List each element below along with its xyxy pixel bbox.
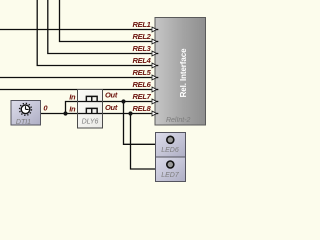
delay block DLY6	[78, 90, 103, 129]
svg-text:In: In	[69, 92, 76, 101]
svg-text:DLY6: DLY6	[82, 119, 99, 126]
pin REL4	[133, 56, 159, 68]
svg-text:REL4: REL4	[133, 56, 152, 65]
pin REL8	[133, 104, 159, 116]
node J3	[128, 111, 132, 115]
pin REL1	[133, 20, 159, 32]
wire REL5 net	[0, 77, 152, 79]
svg-text:REL1: REL1	[133, 20, 151, 29]
LED LED6	[156, 133, 186, 158]
svg-text:In: In	[69, 104, 76, 113]
pin REL5	[133, 68, 159, 80]
pin REL2	[133, 32, 159, 44]
wire REL3 net	[48, 0, 152, 54]
wire REL6 net	[0, 89, 152, 91]
LED LED7	[156, 157, 186, 182]
relay interface U-RelInt-2	[155, 18, 206, 126]
svg-text:LED7: LED7	[161, 172, 180, 179]
svg-text:Out: Out	[105, 103, 118, 112]
svg-text:RelInt-2: RelInt-2	[166, 117, 191, 124]
wire REL7 net	[66, 102, 152, 114]
wire LED7 net	[131, 114, 156, 170]
node J1	[63, 111, 67, 115]
svg-text:REL8: REL8	[133, 104, 152, 113]
wire REL2 net	[60, 0, 152, 42]
wire REL4 net	[37, 0, 151, 66]
pin REL6	[133, 80, 159, 92]
wire REL1 net	[0, 29, 152, 31]
svg-text:REL3: REL3	[133, 44, 152, 53]
timer DTI1	[11, 101, 41, 126]
svg-text:LED6: LED6	[161, 147, 179, 154]
svg-text:REL6: REL6	[133, 80, 152, 89]
node J2	[121, 99, 125, 103]
svg-text:REL5: REL5	[133, 68, 152, 77]
pin REL7	[133, 92, 159, 104]
wire REL8 net	[41, 113, 152, 115]
wire LED6 net	[124, 102, 156, 145]
svg-text:DTI1: DTI1	[16, 119, 31, 126]
svg-text:REL2: REL2	[133, 32, 152, 41]
svg-text:Out: Out	[105, 91, 118, 100]
svg-text:Rel. Interface: Rel. Interface	[179, 48, 188, 97]
pin REL3	[133, 44, 159, 56]
svg-text:REL7: REL7	[133, 92, 152, 101]
